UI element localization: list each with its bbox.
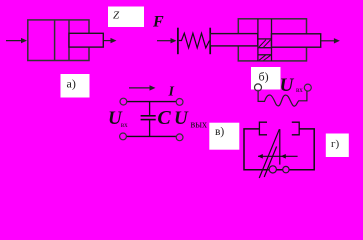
svg-text:I: I	[168, 85, 175, 100]
svg-text:Z: Z	[113, 9, 120, 21]
svg-text:U: U	[174, 108, 189, 129]
svg-text:а): а)	[67, 77, 76, 91]
svg-text:F: F	[152, 14, 164, 31]
svg-text:в): в)	[215, 126, 224, 138]
svg-text:вх: вх	[296, 86, 303, 94]
svg-text:U: U	[280, 75, 295, 96]
svg-text:г): г)	[331, 138, 340, 150]
svg-text:C: C	[157, 107, 171, 129]
svg-text:б): б)	[259, 70, 269, 84]
svg-text:вх: вх	[121, 121, 128, 129]
svg-text:вых: вых	[191, 120, 207, 131]
